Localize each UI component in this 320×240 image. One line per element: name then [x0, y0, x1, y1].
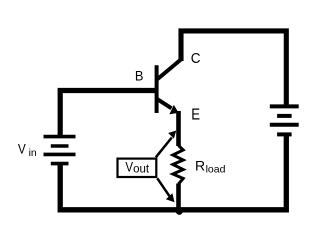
svg-text:R: R: [195, 157, 205, 173]
svg-text:V: V: [18, 140, 26, 156]
svg-text:C: C: [191, 51, 201, 67]
svg-text:in: in: [29, 147, 37, 159]
svg-text:V: V: [125, 159, 133, 174]
svg-text:out: out: [133, 164, 150, 176]
svg-text:E: E: [191, 107, 200, 124]
svg-text:B: B: [135, 68, 144, 84]
svg-text:load: load: [206, 164, 226, 176]
